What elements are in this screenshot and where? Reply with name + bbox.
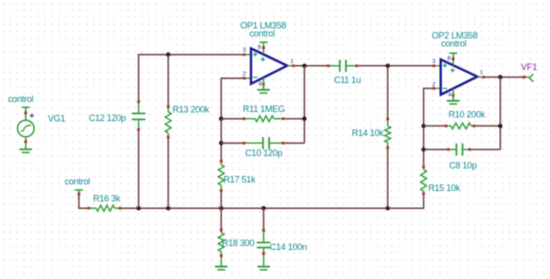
wire R14 top lead (387, 66, 389, 118)
ground (below VG1) (19, 143, 32, 152)
svg-text:R14 10k: R14 10k (352, 128, 385, 138)
svg-text:control: control (8, 94, 34, 104)
op-amp OP2 LM358 (441, 59, 478, 94)
wire R11 left lead (221, 118, 243, 120)
wire R16 to bus (122, 207, 140, 209)
resistor R18 (218, 229, 224, 258)
node control (OP1 V+) (249, 28, 275, 54)
pin 1 (OP1 OUT) (287, 59, 295, 67)
label C8 10p (449, 161, 477, 171)
capacitor C11 (327, 60, 358, 72)
wire OP2 -IN net (424, 88, 434, 165)
svg-text:control: control (441, 38, 467, 48)
junction C12/bus (136, 206, 140, 210)
junction C10 left (219, 141, 223, 145)
pin 3 (OP1 +IN) (243, 47, 252, 55)
node control (R16 terminal) (65, 176, 91, 192)
resistor R17 (218, 160, 224, 193)
wire ground bus (139, 207, 425, 209)
label R14 10k (352, 128, 385, 138)
junction R17/bus (219, 206, 223, 210)
junction OP1 out / feedback (302, 64, 306, 68)
pin 3 (OP2 +IN) (432, 59, 441, 67)
junction OP2 out / feedback (498, 75, 502, 79)
label VF1 (521, 62, 537, 72)
capacitor C12 (132, 100, 146, 131)
wire C12 corner to OP1 pin3 (139, 55, 244, 101)
svg-text:R10 200k: R10 200k (449, 109, 486, 119)
wire C10 left lead (221, 142, 243, 144)
ground (below C14) (257, 255, 270, 270)
wire R10 left lead (424, 125, 446, 127)
wire C12 to bus (138, 131, 140, 208)
junction R11 right (302, 117, 306, 121)
pin 2 (OP1 -IN) (243, 71, 252, 79)
label R11 1MEG (243, 104, 285, 114)
wire OP1 feedback down (303, 66, 305, 143)
svg-text:control: control (65, 176, 91, 186)
wire bus to R18 (220, 208, 222, 228)
wire C10 right lead (285, 142, 305, 144)
pin 4 (OP1 V-) (258, 82, 264, 88)
label C12 120p (89, 113, 126, 123)
wire control-node to R16 (78, 193, 89, 209)
svg-text:3: 3 (243, 47, 246, 53)
wire R11 right lead (285, 118, 305, 120)
wire OP1 -IN net (221, 78, 243, 160)
label C11 1u (334, 75, 361, 85)
wire bus to C14 (263, 208, 265, 229)
junction R14 top (386, 64, 390, 68)
pin 8 (OP2 V+) (447, 56, 454, 62)
wire OP2 out to VF1 (485, 76, 523, 78)
label R18 300 (222, 238, 255, 248)
junction R11 left (219, 117, 223, 121)
pin 8 (OP1 V+) (258, 45, 265, 51)
pin 4 (OP2 V-) (448, 93, 454, 99)
svg-text:R11 1MEG: R11 1MEG (243, 104, 285, 114)
wire C11 to OP2 pin3 (358, 65, 433, 67)
label R15 10k (428, 183, 461, 193)
label OP2 LM358 (432, 31, 478, 41)
wire C8 right lead (471, 149, 500, 151)
capacitor C8 (447, 143, 471, 155)
label C10 120p (245, 148, 282, 158)
svg-text:R17 51k: R17 51k (224, 175, 257, 185)
svg-text:R16 3k: R16 3k (93, 194, 121, 204)
svg-text:1: 1 (480, 70, 483, 76)
resistor R13 (165, 105, 171, 139)
wire R15 to bus corner (423, 195, 425, 208)
junction R13/bus (166, 206, 170, 210)
label OP1 LM358 (240, 21, 286, 31)
svg-text:8: 8 (447, 56, 450, 62)
svg-text:R13 200k: R13 200k (173, 105, 210, 115)
resistor R10 (445, 123, 476, 129)
capacitor C14 (257, 229, 271, 255)
wire OP1 out to C11 (295, 65, 328, 67)
node control (OP2 V+) (441, 38, 467, 65)
svg-text:2: 2 (243, 71, 246, 77)
label R16 3k (93, 194, 121, 204)
junction C14/bus (261, 206, 265, 210)
label R13 200k (173, 105, 210, 115)
junction C8 left (421, 147, 425, 151)
wire R14 to bus (387, 149, 389, 208)
op-amp OP1 LM358 (251, 48, 287, 83)
svg-text:C10 120p: C10 120p (245, 148, 282, 158)
svg-text:C11 1u: C11 1u (334, 75, 361, 85)
svg-text:8: 8 (258, 45, 261, 51)
svg-text:C8 10p: C8 10p (449, 161, 477, 171)
node control (VG1 terminal) (8, 94, 34, 112)
svg-text:C14 100n: C14 100n (270, 242, 307, 252)
svg-text:C12 120p: C12 120p (89, 113, 126, 123)
wire R13 top (167, 55, 169, 106)
resistor R11 (243, 116, 285, 122)
pin 1 (OP2 OUT) (477, 70, 485, 78)
junction R10 left (421, 124, 425, 128)
capacitor C10 (243, 137, 285, 149)
voltage source VG1 (18, 111, 35, 143)
wire OP2 feedback down (499, 77, 501, 149)
wire R13 to bus (167, 139, 169, 209)
resistor R15 (421, 165, 427, 195)
pin 2 (OP2 -IN) (432, 82, 441, 89)
svg-text:VF1: VF1 (521, 62, 537, 72)
label R10 200k (449, 109, 486, 119)
svg-text:VG1: VG1 (48, 114, 66, 124)
junction R10 right (498, 124, 502, 128)
ground (OP2 V-) (447, 89, 460, 104)
junction R13 top (166, 52, 170, 56)
label VG1 (48, 114, 66, 124)
wire R17 to bus (220, 192, 222, 208)
svg-text:3: 3 (432, 59, 435, 65)
svg-text:control: control (249, 28, 275, 38)
svg-text:1: 1 (290, 59, 293, 65)
wire C8 left lead (424, 149, 448, 151)
resistor R16 (87, 205, 121, 211)
label R17 51k (224, 175, 257, 185)
resistor R14 (385, 118, 391, 150)
label C14 100n (270, 242, 307, 252)
svg-text:R18 300: R18 300 (222, 238, 255, 248)
ground (OP1 V-) (257, 78, 270, 93)
wire R10 right lead (476, 125, 501, 127)
output pin VF1 (523, 74, 534, 82)
svg-text:R15 10k: R15 10k (428, 183, 461, 193)
junction R14/bus (386, 206, 390, 210)
ground (below R18) (215, 257, 228, 270)
